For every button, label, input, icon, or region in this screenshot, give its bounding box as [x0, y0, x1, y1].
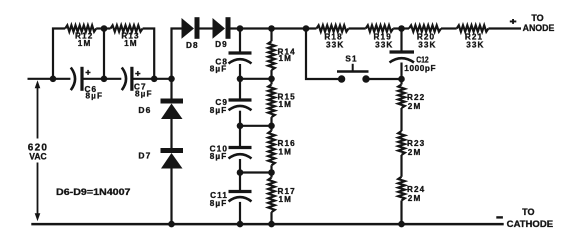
wire top-left corner and left vertical [53, 29, 65, 79]
junction row 2 resistor column [268, 123, 275, 130]
junction resistor column bottom [268, 221, 275, 228]
capacitor C8 [229, 51, 252, 54]
capacitor C7 [122, 68, 126, 91]
svg-text:33K: 33K [375, 40, 393, 49]
wire R20 to R21 [441, 27, 457, 29]
label C6 polarity + [86, 72, 91, 74]
svg-text:VAC: VAC [29, 151, 47, 161]
junction row 3 cap column [237, 169, 244, 176]
diode D8 [182, 18, 195, 39]
svg-text:8µF: 8µF [210, 199, 228, 208]
source 620 VAC arrow up [35, 80, 41, 88]
junction node R12/R13 [101, 25, 108, 32]
svg-text:1M: 1M [124, 39, 138, 48]
resistor R24 [398, 177, 405, 201]
svg-text:1M: 1M [279, 100, 293, 109]
resistor R22 [398, 85, 405, 109]
resistor R14 [268, 41, 275, 70]
svg-text:CATHODE: CATHODE [507, 219, 553, 229]
wire R17 to bottom rail [270, 212, 272, 224]
junction R24 bottom [398, 221, 405, 228]
svg-text:2M: 2M [408, 148, 422, 157]
svg-text:D8: D8 [186, 41, 199, 50]
wire C7 to rail end [133, 78, 173, 80]
capacitor C11 [229, 190, 252, 193]
wire C6 to node [84, 78, 122, 80]
wire R21 to anode terminal [488, 27, 521, 29]
svg-text:8µF: 8µF [210, 152, 228, 161]
svg-text:D6: D6 [138, 105, 151, 115]
svg-text:33K: 33K [418, 40, 436, 49]
wire to resistor R15 [270, 70, 272, 84]
diode D9 [213, 18, 226, 39]
resistor R16 [268, 131, 275, 166]
wire to capacitor C9 [239, 64, 241, 99]
svg-text:1M: 1M [279, 54, 293, 63]
resistor R17 [268, 178, 275, 213]
capacitor C6 [71, 68, 75, 91]
svg-text:1M: 1M [279, 195, 293, 204]
wire diode branch vertical segment [170, 79, 172, 99]
wire to resistor R23 [400, 108, 402, 131]
switch S1 [337, 70, 369, 72]
junction row 1 cap column [237, 76, 244, 83]
wire junction row 2 [240, 125, 272, 127]
junction diode branch bottom [168, 221, 175, 228]
wire junction row 3 [240, 171, 272, 173]
capacitor C12 [390, 50, 415, 53]
wire to resistor R17 [270, 165, 272, 177]
wire R13 right corner down [143, 29, 155, 79]
wire S1 branch from top rail [306, 29, 342, 80]
wire top rail to C12 [400, 29, 402, 52]
wire to resistor R22 [400, 79, 402, 85]
resistor R21 [457, 25, 489, 31]
resistor R12 [65, 25, 96, 31]
wire second rail left stub [28, 78, 71, 80]
svg-text:D6-D9=1N4007: D6-D9=1N4007 [56, 187, 131, 197]
capacitor C9 [229, 98, 252, 101]
svg-text:R23: R23 [407, 139, 425, 148]
wire C11 to bottom rail [239, 202, 241, 224]
wire C12 to node [400, 63, 402, 80]
svg-text:1M: 1M [279, 147, 293, 156]
wire to capacitor C10 [239, 111, 241, 147]
svg-text:ANODE: ANODE [523, 23, 555, 33]
junction left vertical on rail [50, 76, 57, 83]
diode D6 [161, 99, 184, 104]
junction C12 top [398, 25, 405, 32]
label C7 polarity + [135, 73, 140, 75]
wire R12 to node [96, 27, 110, 29]
junction C12 bottom node [398, 76, 405, 83]
resistor R13 [111, 25, 143, 31]
svg-text:R22: R22 [407, 93, 425, 102]
svg-text:2M: 2M [408, 102, 422, 111]
resistor R18 [317, 25, 349, 31]
resistor R23 [398, 131, 405, 155]
resistor R15 [268, 84, 275, 117]
capacitor C10 [229, 146, 252, 149]
resistor R19 [366, 25, 394, 31]
svg-text:8µF: 8µF [86, 91, 104, 100]
wire bottom rail [31, 223, 503, 226]
svg-text:C12: C12 [416, 55, 429, 64]
svg-text:R24: R24 [407, 185, 425, 194]
wire to capacitor C8 [239, 29, 241, 53]
wire node to C6-C7 junction [103, 29, 105, 79]
wire R18 to R19 [349, 27, 366, 29]
junction cap column bottom [237, 221, 244, 228]
wire R24 to bottom rail [400, 201, 402, 225]
svg-text:1M: 1M [78, 39, 92, 48]
diode D7 [161, 148, 184, 153]
junction R13 branch on rail [151, 76, 158, 83]
svg-text:2M: 2M [408, 194, 422, 203]
wire R19 to R20 [393, 27, 409, 29]
label cathode polarity minus [496, 216, 503, 218]
svg-text:33K: 33K [466, 40, 484, 49]
junction row 1 resistor column [268, 76, 275, 83]
wire junction row 1 [240, 78, 272, 80]
label anode polarity + [510, 21, 517, 23]
svg-text:8µF: 8µF [210, 65, 228, 74]
svg-text:TO: TO [531, 13, 543, 23]
svg-text:8µF: 8µF [210, 106, 228, 115]
wire D9 to S1 branch [231, 27, 317, 29]
svg-text:S1: S1 [345, 55, 357, 64]
svg-text:8µF: 8µF [135, 90, 153, 99]
junction row 3 resistor column [268, 169, 275, 176]
junction capacitor column top [237, 25, 244, 32]
junction diode branch on rail [168, 76, 175, 83]
junction S1 branch top [303, 25, 310, 32]
svg-text:33K: 33K [326, 40, 344, 49]
source 620 VAC arrow down [37, 163, 39, 216]
svg-text:D7: D7 [138, 151, 151, 161]
svg-text:1000pF: 1000pF [404, 64, 436, 73]
wire to resistor R24 [400, 155, 402, 177]
resistor R20 [409, 25, 441, 31]
junction row 2 cap column [237, 123, 244, 130]
wire S1 to C12 node [366, 78, 402, 80]
wire diode branch vertical top [172, 29, 182, 79]
wire to resistor R14 [270, 29, 272, 42]
svg-text:TO: TO [522, 207, 534, 217]
wire to resistor R16 [270, 117, 272, 131]
wire D6 to D7 [170, 119, 172, 148]
wire D8 to D9 [200, 27, 213, 29]
wire to capacitor C11 [239, 159, 241, 191]
junction resistor column top [268, 25, 275, 32]
wire D7 to bottom rail [170, 169, 172, 225]
svg-text:D9: D9 [215, 40, 228, 49]
junction C6/C7 node [101, 76, 108, 83]
